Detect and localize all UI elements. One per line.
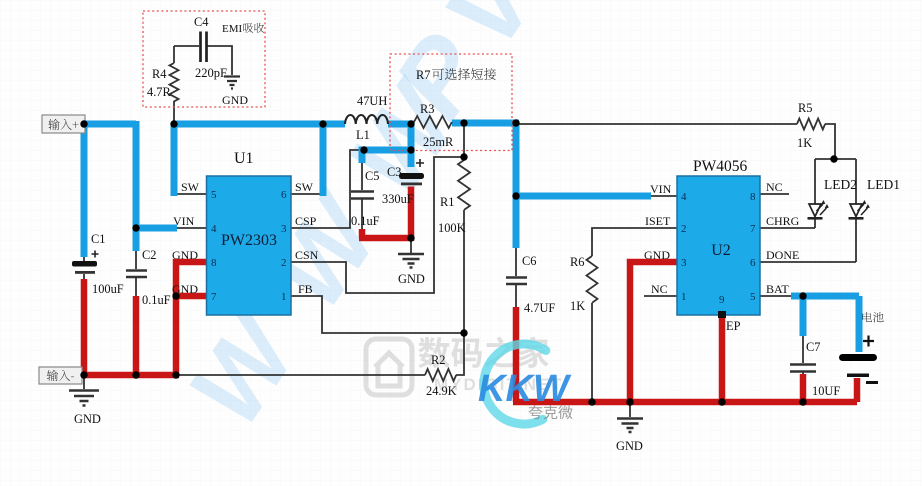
wire: CSN route [291,157,464,293]
wire: bottom bus [513,399,857,406]
svg-text:LED1: LED1 [867,177,900,192]
LED1 [849,200,870,218]
svg-text:SW: SW [181,180,200,194]
svg-text:R2: R2 [431,353,445,367]
wire: input+ rail [84,121,136,128]
svg-text:LED2: LED2 [824,177,857,192]
svg-text:0.1uF: 0.1uF [351,214,380,228]
svg-text:C5: C5 [365,169,379,183]
label 电池 [863,312,884,323]
svg-text:1: 1 [681,291,687,303]
svg-text:EP: EP [726,319,741,333]
node C6 top [512,119,519,126]
wire: VIN U2 line [516,193,651,200]
svg-text:10UF: 10UF [812,384,840,398]
svg-text:R1: R1 [440,195,454,209]
svg-text:PW4056: PW4056 [693,158,748,175]
node SW6 [319,120,326,127]
svg-text:DONE: DONE [766,248,799,262]
wire: C1 C2 leads [84,250,136,389]
chip U1 [207,176,292,315]
wire: R1 leads [463,122,465,333]
wire: R4 leads [173,46,175,124]
node bus C7 [799,398,806,405]
ground in EMI box [224,77,240,89]
node bus EP [718,398,725,405]
svg-text:100K: 100K [438,221,466,235]
wire: LED rail [815,158,856,160]
node VIN/C2 [132,224,139,231]
wire: EP drop [719,314,726,402]
wire: BAT stub [760,295,792,297]
svg-text:330uF: 330uF [382,192,414,206]
R7 dashed box [390,54,512,151]
wire: C2 to bus [133,296,140,375]
svg-text:24.9K: 24.9K [426,384,457,398]
svg-text:C1: C1 [91,232,105,246]
inductor L1 [345,115,388,124]
LED2 [808,200,829,218]
resistor R3 [414,116,452,128]
capacitor C3 polar [399,159,424,185]
wire: C5 node bar [359,147,414,154]
svg-text:100uF: 100uF [92,282,124,296]
svg-text:VIN: VIN [173,214,195,228]
wire: SW pin5 stub [174,193,206,195]
wire: C7 leads [802,336,804,376]
wire: C2 drop [133,228,140,251]
resistor R4 [170,63,179,101]
svg-text:7: 7 [211,291,217,303]
node C5 top [360,146,367,153]
resistor R1 [458,160,470,210]
node bus C2 [132,371,139,378]
battery BT1 [839,336,878,383]
chip U2 [677,176,760,318]
wire: LED1 leads [855,159,857,262]
svg-text:4: 4 [211,223,217,235]
svg-text:KKW: KKW [478,368,572,410]
wire: SW5 drop [171,124,178,196]
node FB/R1/R2 [460,329,467,336]
svg-text:ISET: ISET [645,214,671,228]
svg-text:GND: GND [74,412,101,426]
wire: FB route [291,296,464,333]
resistor R2 [425,369,456,381]
wire: C3 node drop [408,121,415,167]
node bus gnd [626,398,633,405]
svg-text:SW: SW [295,180,314,194]
svg-text:CSP: CSP [295,214,317,228]
svg-text:GND: GND [398,272,425,286]
svg-text:PW2303: PW2303 [221,232,277,249]
svg-text:EMI: EMI [222,23,243,35]
wire: C1 to bus [81,279,88,375]
wire: C4 leads [174,46,232,75]
wire: VIN U2 stub [650,195,677,197]
ground under input- [69,391,99,406]
svg-text:8: 8 [750,191,756,203]
resistor R5 [797,119,825,130]
svg-text:C7: C7 [806,340,820,354]
svg-text:U1: U1 [234,150,254,167]
wire: VIN U1 stub [176,227,206,229]
input+ label [42,115,85,133]
wire: R5 right to LED rail [825,124,835,159]
wire: C6 drop [513,121,520,248]
ground C3 [398,254,424,268]
svg-text:5: 5 [750,291,756,303]
svg-text:L1: L1 [356,128,370,142]
svg-text:GND: GND [616,439,643,453]
svg-text:2: 2 [681,223,687,235]
svg-text:C6: C6 [522,254,536,268]
capacitor C2 [126,271,147,278]
svg-text:R5: R5 [798,101,812,115]
capacitor C6 [506,278,527,285]
wire: L1 to R3 [388,121,414,128]
node bat/C7 [799,292,806,299]
svg-text:R7: R7 [416,68,430,82]
node input+/C1 [80,120,87,127]
node L1/R3/C3 [407,120,414,127]
wire: VIN blue segment [133,225,177,232]
wire: ISET route + R6 leads [592,228,677,402]
watermark mydigit grey [366,337,564,395]
wire: C5 stub [359,147,366,163]
svg-text:GND: GND [172,248,198,262]
wire: C6 lead [515,248,517,309]
svg-text:9: 9 [719,294,725,306]
wire: top rail to R5 [516,123,797,125]
KKW logo [478,344,573,424]
resistor R6 [587,256,598,303]
node gnd7 [172,292,179,299]
ground under U2 [617,419,643,433]
svg-text:GND: GND [644,248,670,262]
svg-text:GND: GND [172,282,198,296]
svg-text:2: 2 [281,257,287,269]
svg-text:NC: NC [651,282,668,296]
wire: CSP route [291,150,362,228]
wire: BAT line [791,293,859,300]
wire: CHRG line [760,227,815,229]
wire: SW pin6 stub [291,193,323,195]
wire: C6 to bus [513,307,520,402]
watermark WWW.PV diagonal [167,0,563,445]
wire: R2 leads + left bus thin [176,333,464,375]
svg-text:47UH: 47UH [357,94,387,108]
wire: SW6 drop [320,124,327,196]
wire: NC8 stub [760,193,789,195]
EMI dashed box [143,11,265,107]
svg-text:4: 4 [681,191,687,203]
svg-text:CHRG: CHRG [766,214,800,228]
node VIN U2 [512,192,519,199]
svg-text:FB: FB [298,282,313,296]
node bus R6 [588,398,595,405]
node C3/C5 [407,146,414,153]
svg-text:3: 3 [281,223,287,235]
svg-text:R3: R3 [420,102,434,116]
wire: left bus [81,372,179,379]
svg-text:C4: C4 [194,15,208,29]
svg-text:220pF: 220pF [195,66,227,80]
svg-text:4.7R: 4.7R [147,85,171,99]
wire: C3 gnd lead [410,240,412,253]
wire: R3 to C6 column [452,120,519,127]
wire: NC1 stub [644,295,677,297]
wire: U2 gnd [630,262,677,402]
input- label [39,367,82,384]
svg-text:4.7UF: 4.7UF [524,301,555,315]
svg-text:3: 3 [681,257,687,269]
wire: DONE line [760,261,856,263]
node bus C1 [80,371,87,378]
svg-text:VIN: VIN [650,182,672,196]
wire: battery minus [854,378,861,402]
chip inner text [211,189,756,306]
svg-text:1: 1 [281,291,287,303]
svg-text:5: 5 [211,189,217,201]
capacitor C5 [351,192,374,199]
svg-text:U2: U2 [711,242,731,259]
node led rail [830,155,837,162]
svg-text:8: 8 [211,257,217,269]
svg-text:R6: R6 [570,255,584,269]
svg-text:6: 6 [281,189,287,201]
svg-text:GND: GND [222,93,248,107]
wire: C7 drop [800,296,807,336]
wire: C5-C3 gnd link [359,187,412,242]
svg-text:C2: C2 [142,248,156,262]
svg-text:CSN: CSN [295,248,319,262]
svg-text:1K: 1K [797,136,812,150]
node R4/SW [170,120,177,127]
node R3 right [460,119,467,126]
capacitor C4 [201,32,207,63]
svg-text:25mR: 25mR [423,135,454,149]
wire: input+ down to VIN [133,121,140,228]
svg-text:BAT: BAT [766,282,789,296]
wire: LED2 leads [814,159,816,228]
svg-text:7: 7 [750,223,756,235]
svg-text:C3: C3 [387,165,401,179]
node bus U1gnd [172,371,179,378]
svg-text:1K: 1K [570,299,585,313]
wire: C5 lead bottom [361,158,363,230]
svg-text:NC: NC [766,180,783,194]
wire: SW rail [174,121,345,128]
wire: battery drop [856,296,863,352]
wire: C1 drop [81,124,88,257]
node CSN/R1 [460,153,467,160]
node gnd C3 [407,234,414,241]
svg-text:R4: R4 [152,67,166,81]
wire: C7 to bus [800,374,807,402]
wire: gnd lead under bus [629,402,631,417]
capacitor C1 polar [72,251,99,274]
svg-text:6: 6 [750,257,756,269]
svg-text:0.1uF: 0.1uF [142,293,171,307]
wire: U1 gnd pins [176,262,206,375]
capacitor C7 [790,365,816,372]
